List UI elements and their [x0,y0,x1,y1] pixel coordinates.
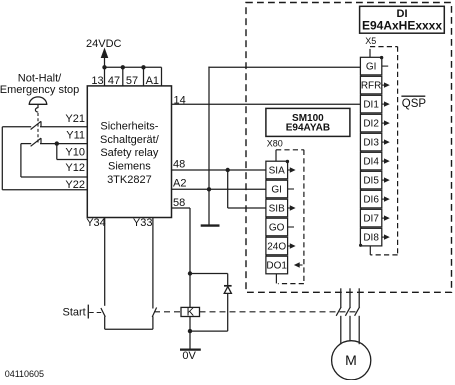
svg-text:Schaltgerät/: Schaltgerät/ [100,134,160,146]
wire Y22 [2,189,87,191]
wire rail Y11-Y12 [20,144,22,177]
wire Y34 down [104,218,106,306]
svg-text:GI: GI [271,185,282,196]
wire 14 to DI1 [172,103,361,105]
wire left rail Y21-Y22 [1,127,3,190]
svg-text:DO1: DO1 [266,261,287,272]
terminal X80 GI box [266,180,288,198]
X5 enclosure (dashed) [370,46,398,48]
wire Y10 vertical [56,144,58,160]
wire SIB branch horizontal [228,207,266,209]
terminal X80 DO1 box [266,256,288,274]
emergency stop linkage (dashed) [37,113,39,143]
wire 58 down to K coil [189,208,191,307]
terminal X80 SIB box [266,199,288,217]
junction dot Y11/Y10 [55,141,59,145]
module DI E94AxHExxxx box [360,6,445,33]
svg-text:Not-Halt/: Not-Halt/ [18,72,62,84]
svg-text:GO: GO [269,223,285,234]
terminal X80 GO stub line [288,226,294,228]
terminal X5 DI5 box [360,171,381,189]
wire motor phase 1 lower [340,316,342,344]
svg-text:Y34: Y34 [86,217,106,229]
wire Y11 right segment [40,143,87,145]
contact S1.2 blade [31,138,41,146]
svg-text:RFR: RFR [361,81,382,92]
wire Y21 left segment [2,126,31,128]
terminal X80 GI stub line [288,188,294,190]
emergency stop plunger [35,104,38,112]
contact K1 main 1 blade [336,307,341,316]
svg-text:0V: 0V [182,350,196,362]
svg-text:X5: X5 [365,36,376,46]
terminal X5 DI3 box [360,133,381,151]
wire diode branch vertical lower [227,293,229,331]
svg-text:04110605: 04110605 [5,369,44,379]
wire Y11 left segment [21,143,31,145]
motor M1 circle [332,341,371,380]
signal arrow X80 SIA [288,169,291,171]
wire motor phase 3 upper [358,288,360,307]
contact K1 aux blade [152,308,156,318]
wire 58 stub [172,207,191,209]
wire Y12 [21,176,87,178]
svg-text:Siemens: Siemens [108,161,151,173]
signal arrow X5 DI3 [382,141,385,143]
contact K1 main 2 blade [345,307,350,316]
terminal X5 GI stub line [382,65,388,67]
X5 column spine [360,75,362,76]
svg-text:GI: GI [366,62,377,73]
wire SIB branch vertical [227,170,229,208]
wire motor phase 3 lower [358,316,360,344]
svg-text:DI8: DI8 [363,233,379,244]
svg-text:13: 13 [91,75,103,87]
junction dot K coil top [188,271,192,275]
connector X5 stub bottom [369,246,371,255]
relay coil K1 box [181,307,200,316]
terminal X5 DI2 box [360,114,381,132]
wire drop to terminal A1 [161,67,163,86]
signal arrow X80 DO1 (out) [299,264,303,266]
mech link K coil to contactor [200,311,358,313]
connector X5 stub [369,49,371,57]
safety relay U1 3TK2827 box [87,86,171,218]
svg-text:A1: A1 [146,75,159,87]
wire diode branch bottom [190,330,228,332]
svg-text:E94AYAB: E94AYAB [286,123,330,134]
wire Y21 right segment [40,126,87,128]
svg-text:3TK2827: 3TK2827 [107,174,152,186]
wire 24V supply bus [105,66,162,68]
terminal X5 DI4 box [360,152,381,170]
terminal X5 DI7 box [360,209,381,227]
wire Y10 [57,159,88,161]
signal arrow X5 DI8 [382,236,385,238]
signal arrow X80 SIB [288,207,291,209]
X80 enclosure (dashed) [276,149,304,151]
terminal X5 DI8 box [360,228,381,246]
X80 column spine [265,179,267,180]
svg-text:48: 48 [173,159,185,171]
svg-text:47: 47 [108,75,120,87]
junction dot X5 GI corner [380,56,383,59]
signal arrow X5 DI4 [382,160,385,162]
junction dot bus at 13 [102,65,106,69]
svg-text:Y21: Y21 [65,113,85,125]
drive enclosure (dashed) [246,3,452,293]
svg-text:M: M [345,352,357,368]
wire start bottom [105,328,153,330]
svg-text:58: 58 [173,197,185,209]
svg-text:DI6: DI6 [363,195,379,206]
junction dot A2/ground rail [207,187,211,191]
svg-text:57: 57 [126,75,138,87]
emergency stop mushroom actuator [29,97,46,104]
svg-text:DI5: DI5 [363,176,379,187]
contact S2 blade [101,308,105,317]
ground symbol 0V [180,349,201,351]
svg-text:Emergency stop: Emergency stop [0,84,79,96]
svg-text:QSP: QSP [402,98,427,110]
svg-text:Start: Start [63,306,86,318]
terminal X5 RFR box [360,76,381,94]
svg-text:Safety relay: Safety relay [100,147,159,159]
ground symbol [201,224,220,226]
terminal X5 GI box [360,57,381,75]
svg-text:DI7: DI7 [363,214,379,225]
junction dot X5 DI8 corner [359,244,362,247]
terminal X80 24O box [266,237,288,255]
signal arrow X5 DI6 [382,198,385,200]
wire 48 to SIA [172,169,266,171]
junction dot X80 SIA corner [286,160,289,163]
terminal X80 SIA box [266,161,288,179]
wire diode branch top [190,273,228,275]
wire ground rail top corner [208,67,210,226]
svg-text:E94AxHExxxx: E94AxHExxxx [362,18,442,32]
svg-text:SIB: SIB [269,204,285,215]
net QSP overline [401,95,425,97]
svg-text:DI1: DI1 [363,100,379,111]
wire motor phase 1 upper [340,288,342,307]
svg-text:24VDC: 24VDC [86,38,122,50]
svg-text:A2: A2 [173,177,186,189]
junction dot 48/SIB branch [226,168,230,172]
svg-text:Y10: Y10 [65,146,85,158]
wire 24VDC arrow up [101,48,109,59]
wire drop to terminal 57 [143,67,145,86]
wire A2 to GI(X80) [172,188,266,190]
wire drop to terminal 13 [104,67,106,86]
signal arrow X5 DI1 [382,103,385,105]
signal arrow X5 DI5 [382,179,385,181]
wire to 0V [189,331,191,349]
svg-text:DI2: DI2 [363,119,379,130]
connector X80 stub bottom [275,274,277,284]
wire GI(X5) feed [208,66,360,68]
junction dot K coil bottom [188,329,192,333]
contact K1 main 3 blade [355,307,360,316]
svg-text:SIA: SIA [269,166,285,177]
signal arrow X5 DI2 [382,122,385,124]
mech link start contact to K coil [154,311,181,313]
wire K coil bottom [189,317,191,332]
connector X80 stub [275,150,277,161]
junction dot bus at 57 [141,65,145,69]
module SM100 E94AYAB box [266,108,350,136]
wire drop to terminal 47 [122,67,124,86]
signal arrow X5 DI7 [382,217,385,219]
wire motor phase 2 lower [349,316,351,341]
signal arrow X5 RFR [382,84,385,86]
wire diode branch vertical upper [227,274,229,287]
svg-text:DI4: DI4 [363,157,379,168]
svg-text:Y11: Y11 [66,130,85,142]
junction dot bus at 47 [121,65,125,69]
svg-text:Y33: Y33 [133,217,153,229]
diode V1 [224,285,232,287]
wire Y34 below contact [104,316,106,329]
svg-text:K: K [187,307,195,319]
wire Y33 down [152,218,154,309]
svg-text:DI3: DI3 [363,138,379,149]
wire Y33 up from bottom [152,316,154,329]
svg-text:Sicherheits-: Sicherheits- [100,121,158,133]
terminal X5 DI6 box [360,190,381,208]
svg-text:24O: 24O [267,242,286,253]
wire motor phase 2 upper [349,288,351,307]
start button S2 actuator [87,305,89,319]
terminal X5 DI1 box [360,95,381,113]
svg-text:Y12: Y12 [65,162,85,174]
contact S1.1 blade [31,121,41,129]
signal arrow X80 24O [288,245,291,247]
terminal X80 GO box [266,218,288,236]
svg-text:X80: X80 [267,139,283,149]
